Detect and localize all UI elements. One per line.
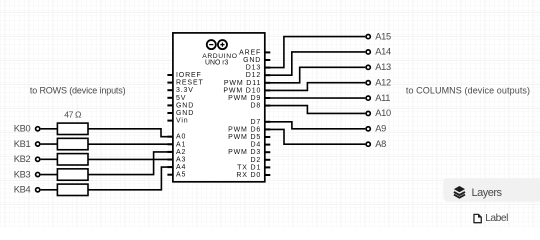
resistor R3 47ohm (57, 154, 88, 165)
resistor R2 47ohm (57, 138, 88, 149)
pin D2 (right) (265, 159, 271, 161)
pin Vin (left) (167, 120, 173, 122)
node KB0 terminal (36, 127, 40, 131)
svg-text:PWM D9: PWM D9 (228, 95, 261, 102)
svg-text:A15: A15 (375, 31, 391, 41)
svg-text:PWM D5: PWM D5 (228, 134, 261, 141)
svg-text:D4: D4 (251, 142, 262, 149)
svg-text:A12: A12 (375, 77, 391, 87)
pin GND (left) (167, 104, 173, 106)
svg-text:AREF: AREF (239, 49, 261, 56)
node KB4 terminal (36, 188, 40, 192)
svg-text:Label: Label (485, 213, 508, 224)
svg-text:IOREF: IOREF (176, 72, 202, 79)
node A12 terminal (366, 81, 370, 85)
svg-text:GND: GND (243, 57, 261, 64)
svg-text:Layers: Layers (472, 187, 503, 199)
pin D7 (right) (265, 121, 271, 123)
svg-text:D13: D13 (246, 65, 261, 72)
wire D13 to A15 (265, 37, 366, 68)
svg-text:A9: A9 (375, 124, 386, 134)
wire D7 to A9 (265, 122, 366, 129)
pin PWM D3 (right) (265, 151, 271, 153)
svg-text:RESET: RESET (176, 80, 204, 87)
pin A4 (left) (167, 166, 173, 168)
pin A0 (left) (167, 136, 173, 138)
svg-text:A0: A0 (176, 134, 186, 141)
pin A3 (left) (167, 159, 173, 161)
svg-text:KB4: KB4 (14, 185, 31, 195)
wire D6 to A8 (265, 129, 366, 144)
svg-text:KB2: KB2 (14, 154, 31, 164)
wire KB1 to pin A1 (88, 143, 173, 145)
pin PWM D10 (right) (265, 89, 271, 91)
pin IOREF (left) (167, 74, 173, 76)
node A13 terminal (366, 65, 370, 69)
svg-text:KB1: KB1 (14, 139, 31, 149)
node A14 terminal (366, 50, 370, 54)
svg-text:D8: D8 (251, 103, 262, 110)
svg-text:UNO r3: UNO r3 (205, 59, 229, 66)
wire KB4 to pin A4 (88, 167, 173, 190)
svg-text:KB0: KB0 (14, 124, 31, 134)
UI panel Layers (443, 178, 540, 201)
svg-text:3.3V: 3.3V (176, 87, 194, 94)
svg-text:A3: A3 (176, 157, 186, 164)
svg-text:Vin: Vin (176, 118, 189, 125)
svg-text:5V: 5V (176, 95, 186, 102)
Arduino logo (207, 40, 227, 49)
wire D9 to A11 (265, 97, 366, 99)
node A8 terminal (366, 142, 370, 146)
resistor R5 47ohm (57, 184, 88, 195)
resistor R1 47ohm (57, 123, 88, 134)
svg-text:PWM D3: PWM D3 (228, 149, 261, 156)
wire KB4 to resistor R5 (41, 189, 58, 191)
pin GND (left) (167, 112, 173, 114)
wire KB0 to pin A0 (88, 129, 173, 137)
node A9 terminal (366, 127, 370, 131)
pin RESET (left) (167, 82, 173, 84)
svg-text:KB3: KB3 (14, 169, 31, 179)
pin GND (right) (265, 59, 271, 61)
svg-text:A10: A10 (375, 108, 391, 118)
svg-text:PWM D10: PWM D10 (223, 87, 261, 94)
wire KB2 to pin A3 (88, 158, 173, 160)
wire KB0 to resistor R1 (41, 128, 58, 130)
svg-text:A13: A13 (375, 62, 391, 72)
wire D8 to A10 (265, 106, 366, 114)
pin A1 (left) (167, 143, 173, 145)
node A10 terminal (366, 111, 370, 115)
svg-text:A1: A1 (176, 141, 186, 148)
pin D13 (right) (265, 67, 271, 69)
IC U1 Arduino UNO r3 body (173, 33, 265, 182)
svg-text:TX D1: TX D1 (237, 164, 261, 171)
svg-text:PWM D6: PWM D6 (228, 126, 261, 133)
svg-text:A4: A4 (176, 164, 186, 171)
svg-text:A11: A11 (375, 93, 390, 103)
pin D8 (right) (265, 105, 271, 107)
svg-text:PWM D11: PWM D11 (224, 80, 261, 87)
pin TX D1 (right) (265, 166, 271, 168)
svg-text:A8: A8 (375, 139, 386, 149)
pin AREF (right) (265, 51, 271, 53)
svg-text:A14: A14 (375, 47, 391, 57)
node KB3 terminal (36, 172, 40, 176)
pin 5V (left) (167, 97, 173, 99)
node KB1 terminal (36, 142, 40, 146)
resistor R4 47ohm (57, 169, 88, 180)
svg-text:to ROWS (device inputs): to ROWS (device inputs) (30, 85, 126, 95)
svg-text:to COLUMNS (device outputs): to COLUMNS (device outputs) (406, 85, 530, 95)
pin D4 (right) (265, 144, 271, 146)
wire KB2 to resistor R3 (41, 158, 58, 160)
node A15 terminal (366, 35, 370, 39)
svg-text:D12: D12 (246, 72, 261, 79)
node A11 terminal (366, 96, 370, 100)
wire D11 to A13 (265, 67, 366, 82)
wire D10 to A12 (265, 83, 366, 91)
pin D12 (right) (265, 74, 271, 76)
svg-text:D2: D2 (251, 157, 262, 164)
node KB2 terminal (36, 157, 40, 161)
pin PWM D5 (right) (265, 136, 271, 138)
svg-text:A2: A2 (176, 149, 186, 156)
icon label document (474, 214, 481, 222)
pin A2 (left) (167, 151, 173, 153)
svg-text:D7: D7 (251, 119, 262, 126)
pin PWM D6 (right) (265, 128, 271, 130)
pin PWM D11 (right) (265, 82, 271, 84)
wire KB1 to resistor R2 (41, 143, 58, 145)
pin PWM D9 (right) (265, 97, 271, 99)
svg-text:A5: A5 (176, 172, 186, 179)
svg-text:RX D0: RX D0 (236, 172, 261, 179)
icon layers (454, 186, 465, 198)
wire D12 to A14 (265, 52, 366, 75)
svg-text:GND: GND (176, 110, 194, 117)
svg-text:GND: GND (176, 102, 194, 109)
svg-text:47 Ω: 47 Ω (64, 109, 82, 119)
wire KB3 to pin A2 (88, 152, 173, 175)
pin RX D0 (right) (265, 174, 271, 176)
pin 3.3V (left) (167, 89, 173, 91)
pin A5 (left) (167, 174, 173, 176)
wire KB3 to resistor R4 (41, 174, 58, 176)
